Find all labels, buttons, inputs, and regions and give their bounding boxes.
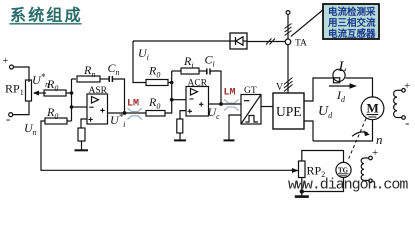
- svg-text:+: +: [404, 80, 410, 92]
- svg-text:TA: TA: [295, 39, 307, 49]
- svg-text:GT: GT: [244, 86, 257, 96]
- svg-text:电流互感器: 电流互感器: [328, 28, 376, 40]
- svg-text:ACR: ACR: [188, 79, 208, 89]
- svg-text:L: L: [338, 59, 347, 75]
- svg-text:Id: Id: [336, 88, 346, 104]
- svg-text:Rn: Rn: [83, 63, 95, 79]
- svg-text:Ri: Ri: [183, 54, 194, 70]
- svg-text:-: -: [6, 111, 10, 126]
- svg-text:n: n: [376, 132, 383, 147]
- svg-text:Ci: Ci: [205, 53, 215, 69]
- svg-text:系统组成: 系统组成: [10, 6, 83, 25]
- svg-text:电流检测采: 电流检测采: [328, 6, 376, 18]
- svg-text:Ui: Ui: [138, 46, 149, 62]
- svg-text:Uc: Uc: [208, 105, 221, 121]
- svg-text:R0: R0: [46, 105, 58, 121]
- svg-text:+: +: [372, 147, 378, 159]
- svg-text:TG: TG: [338, 167, 349, 175]
- svg-text:LM: LM: [224, 88, 236, 99]
- svg-text:-: -: [405, 115, 409, 130]
- svg-text:R0: R0: [148, 64, 160, 80]
- svg-text:ASR: ASR: [89, 86, 108, 96]
- svg-text:V: V: [276, 82, 284, 93]
- svg-text:UPE: UPE: [276, 104, 302, 119]
- svg-text:U*i: U*i: [110, 112, 125, 129]
- svg-text:LM: LM: [127, 99, 139, 110]
- svg-text:Un: Un: [24, 121, 37, 137]
- svg-text:M: M: [367, 101, 379, 116]
- svg-text:+: +: [3, 56, 9, 67]
- svg-text:R0: R0: [148, 95, 160, 111]
- svg-text:Ud: Ud: [318, 104, 333, 120]
- svg-text:www.diangon.com: www.diangon.com: [288, 177, 408, 194]
- svg-text:R0: R0: [46, 77, 58, 93]
- svg-text:Cn: Cn: [108, 61, 120, 77]
- svg-text:RP1: RP1: [5, 82, 24, 98]
- svg-text:用三相交流: 用三相交流: [327, 17, 376, 29]
